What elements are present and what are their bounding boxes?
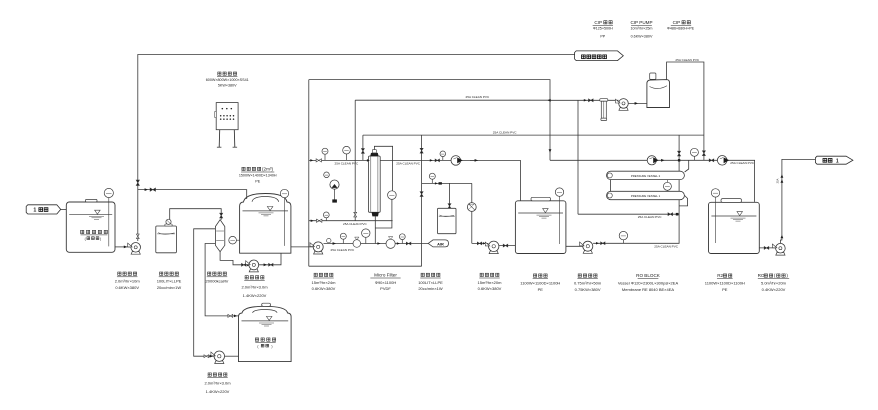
wire: chemical dosing line no.1 to heat exchanger top [170, 209, 222, 222]
label: 약품장치 no.1 spec block [160, 272, 163, 275]
svg-text:PVDF: PVDF [380, 286, 391, 291]
svg-text:5KW×380V: 5KW×380V [218, 84, 237, 88]
svg-text:0.75m³/hr×50m: 0.75m³/hr×50m [574, 281, 602, 286]
wire: skid right line x=421.6 from y=135.1 to base [421, 135, 423, 266]
wire: product line to 공정1 via riser x=781.9 from RO pump [780, 159, 815, 243]
pump 가압펌프 booster pump [583, 251, 592, 254]
wire: top recirculation line y=79.6 from skid riser to x=550 [309, 80, 550, 161]
wire: micro filter drain x=375.3 [374, 216, 376, 243]
svg-text:(2m³): (2m³) [262, 167, 273, 172]
svg-text:100LIT×LLPE: 100LIT×LLPE [157, 279, 182, 284]
svg-text:RO BLOCK: RO BLOCK [636, 273, 661, 278]
svg-text:5.0m³/hr×20m: 5.0m³/hr×20m [761, 281, 787, 286]
svg-text:1500W×1400D×1340H: 1500W×1400D×1340H [239, 174, 277, 178]
label: 부상탱크 spec block [533, 274, 536, 277]
wire: wash pump discharge into flotation tank [499, 245, 515, 247]
pump P5 환수펌프 filtration feed pump [314, 251, 323, 254]
valve: black valve before AIR tee [397, 242, 400, 245]
wire: P5 discharge line y=243.5 to AIR capsule [324, 243, 429, 245]
svg-text:25A CLEAN PVC: 25A CLEAN PVC [493, 131, 517, 135]
wire: main filtration line y=160.4 into flotation tank [309, 160, 521, 200]
svg-text:25A CLEAN PVC: 25A CLEAN PVC [466, 95, 490, 99]
svg-text:RO: RO [758, 273, 765, 278]
chemical doser 약품장치 no.1 container [156, 226, 177, 253]
instrument: TI gauge on T2 left wall [236, 239, 239, 241]
instrument: level gauge on T2 [284, 198, 286, 246]
wire: skid base line y=266.2 [309, 265, 422, 267]
svg-text:1: 1 [33, 208, 36, 214]
svg-text:2.0m³/hr×10m: 2.0m³/hr×10m [115, 279, 141, 284]
arrow: P2 discharge [264, 263, 267, 266]
svg-text:25A CLEAN PVC: 25A CLEAN PVC [638, 215, 662, 219]
wire: CIP pump discharge into CIP tank [629, 102, 647, 104]
valve: valve on HX inlet drop [220, 213, 223, 218]
svg-text:1100W×1100D×1100H: 1100W×1100D×1100H [705, 281, 745, 286]
valve: CIP return valve on x=703.9 [702, 151, 705, 156]
label: 가압펌프 spec block [578, 274, 581, 277]
svg-text:20000kcal/hr: 20000kcal/hr [206, 279, 230, 284]
valve: black valve on permeate line [709, 159, 714, 162]
svg-text:PRESSURE VESSEL 1: PRESSURE VESSEL 1 [631, 194, 661, 198]
wire: CIP return from tank top up and down x=703.9 to product line [667, 62, 704, 160]
pennant: 공정 1 process outlet flag [815, 156, 853, 164]
valve+arrow before IP1 [430, 159, 433, 162]
pennant: 1호기 inlet flag [26, 205, 61, 214]
svg-text:15m³/hr×24m: 15m³/hr×24m [312, 280, 337, 285]
pump IP3 inline pump on permeate line [717, 156, 727, 166]
valve: concentrate valve on x=679.1 [678, 151, 681, 156]
svg-text:1.4KW×220V: 1.4KW×220V [243, 293, 267, 298]
wire: RO pump suction from R2 tank [759, 247, 775, 249]
label: 이송펌프 spec block [118, 272, 121, 275]
pump CIP PUMP [619, 108, 628, 111]
valve: CIP suction valve [584, 99, 587, 102]
pump IP1 inline pump on main line [451, 156, 461, 166]
tank T3 시수탱크(외부) city water tank with dome top [239, 306, 292, 361]
svg-text:PE: PE [722, 287, 728, 292]
micro filter bottom cap [372, 212, 379, 216]
valve: black valve on container no.2 drop [448, 204, 451, 209]
svg-text:1: 1 [836, 158, 839, 164]
svg-text:25A CLEAN PVC: 25A CLEAN PVC [730, 161, 754, 165]
tank R2탱크 RO permeate tank [709, 202, 760, 253]
wire: vessel2 permeate drop x=688.7 [685, 160, 689, 172]
arrow: filter drain junction [377, 242, 380, 245]
valve: skid inlet valves on y=160.4 [310, 159, 313, 162]
wire: vessel1 right link to feed riser [679, 196, 688, 206]
arrow: IP1 discharge flow arrow [470, 159, 478, 161]
valve: skid return valve on y=220.7 [311, 219, 314, 222]
valve+arrow: P4 suction fittings [204, 355, 209, 358]
CIP filter cartridge [600, 99, 608, 102]
wire: vessels left header x=610.4 [609, 175, 611, 195]
svg-text:15m³/hr×20m: 15m³/hr×20m [478, 280, 503, 285]
valve: RO pump suction valve [764, 247, 769, 250]
junction: permeate/concentrate cross [678, 159, 680, 161]
wire: RO reject line y=214.2 to vessels [578, 213, 679, 215]
svg-text:100LIT×LLPE: 100LIT×LLPE [418, 280, 443, 285]
pump RO펌프(급수) product transfer pump [776, 252, 785, 255]
svg-text:1100W×1100D×1100H: 1100W×1100D×1100H [520, 281, 560, 286]
arrow: flow arrow T1 outlet [124, 246, 127, 249]
svg-text:0.6KW×380V: 0.6KW×380V [115, 285, 139, 290]
valve: valve on reject line y=214.2 [668, 213, 673, 216]
sampling pump in skid (circle w/ drain tee) [334, 189, 336, 201]
wire: booster pump suction from flotation tank [566, 245, 583, 247]
svg-text:AIR: AIR [437, 241, 444, 246]
pump P1 이송펌프 transfer pump [131, 252, 140, 255]
chemical doser 약품장치 no.2 container [438, 208, 457, 233]
wire: chemical dosing line no.2 y=183.4 with container drop and dosing pump drop [422, 182, 472, 184]
wire: concentrate drop x=362.9 to main line [362, 135, 364, 160]
wire: tank3 pump discharge into tank3 [225, 355, 239, 357]
svg-text:25A CLEAN PVC: 25A CLEAN PVC [335, 162, 359, 166]
pump 세척펌프 wash pump [489, 251, 498, 254]
svg-text:PRESSURE VESSEL 2: PRESSURE VESSEL 2 [631, 174, 661, 178]
CIP tank jerry can [647, 80, 670, 108]
svg-text:0.6KW×380V: 0.6KW×380V [631, 35, 653, 39]
valve: isolation valve on waste riser [136, 180, 139, 185]
wire: booster pump discharge y=243.3 and RO feed riser x=679.1 [593, 135, 679, 243]
svg-text:): ) [271, 344, 272, 348]
label: 순환펌프 P4 spec block (bottom) [208, 373, 211, 376]
svg-text:PE: PE [255, 179, 260, 183]
pump P2 순환펌프 circulation pump [249, 269, 258, 272]
wire: concentrate header y=135.1 from x=362.9 to x=703.9 [363, 134, 704, 136]
label: 환수펌프 spec block [314, 273, 317, 276]
svg-text:20cc/min×1W: 20cc/min×1W [157, 285, 182, 290]
instrument: PI gauge on filter permeate x=392 [388, 191, 397, 200]
svg-text:0.75KW×380V: 0.75KW×380V [575, 287, 601, 292]
wire: CIP suction line y=100.3 from x=550 [550, 99, 619, 101]
label: 약품장치 no.2 spec block [421, 273, 424, 276]
wire: HX bottom to circulation pump P2 suction [220, 252, 248, 265]
svg-text:0.6KW×380V: 0.6KW×380V [312, 286, 336, 291]
svg-text:2.0m³/hr×3.0m: 2.0m³/hr×3.0m [204, 381, 231, 386]
RO pressure vessel 2 [607, 171, 685, 179]
svg-text:25A: 25A [776, 178, 780, 183]
svg-text:Micro Filter: Micro Filter [374, 273, 397, 278]
svg-text:Membrane RE 8040 BE×4EA: Membrane RE 8040 BE×4EA [622, 287, 674, 292]
valve+arrow: tank3 inlet fittings [228, 314, 233, 317]
dosing pump on container no.1 [165, 224, 172, 226]
instrument: permeate gauge x=694.4 [693, 156, 695, 160]
svg-text:1.4KW×220V: 1.4KW×220V [206, 389, 230, 394]
svg-text:Vessel Φ120×2300L×300psi×2EA: Vessel Φ120×2300L×300psi×2EA [618, 281, 679, 286]
valve: booster discharge fittings [596, 242, 599, 245]
valve+arrow: P2 suction fittings [242, 263, 247, 266]
svg-text:): ) [100, 237, 101, 241]
instrument: level gauge on T1 [108, 198, 110, 247]
svg-text:Φ486×680H×PE: Φ486×680H×PE [667, 26, 695, 30]
instrument: small gauges near AIR line [342, 239, 344, 243]
valve: wash pump discharge valve [503, 244, 508, 247]
fittings on P5 discharge: gauge, arrow [327, 238, 331, 242]
tank T2 처리장치 treatment tank 2m3 with dome top [240, 194, 291, 254]
flotation tank 부상탱크 [515, 201, 566, 254]
valve: vertical valve on x=362.9 concentrate drop [361, 149, 364, 154]
dosing pump no.2 on line x=471.8 [467, 203, 476, 212]
wire: city-water return x=193.7 from HX port down to tank3 pump line y=356.2 [194, 229, 216, 356]
wire: skid return line y=220.7 [309, 220, 393, 222]
svg-text:20cc/min×1W: 20cc/min×1W [418, 286, 443, 291]
wire: city-water supply x=205.1 from HX port to tank3 inlet y=315.9 [205, 244, 238, 316]
arrow: into filter feed [367, 159, 370, 162]
svg-text:600W×800W×1000×SS41: 600W×800W×1000×SS41 [206, 78, 249, 82]
wire: RO permeate line y=160.3 from x=550 to R2 tank drop x=754.6 [550, 160, 755, 202]
svg-text:PE: PE [538, 287, 544, 292]
valve+arrow: wash pump suction fittings [477, 242, 481, 245]
svg-text:PP: PP [600, 35, 605, 39]
svg-text:25A CLEAN PVC: 25A CLEAN PVC [675, 58, 699, 62]
wire: transfer-pump riser to waste header (x=137.8) and top line y=54.5 to 위탁폐수조 [138, 55, 575, 242]
svg-text:25A CLEAN PVC: 25A CLEAN PVC [396, 162, 420, 166]
wire: RO reject vertical x=578 from y=100.2? down to y=214.2 [577, 100, 579, 214]
instrument: gauge + dosing pump on chemical line no.2 [431, 179, 433, 183]
instrument: level gauge on flotation tank [559, 196, 561, 244]
instrument: interstage gauge between vessels [663, 182, 671, 190]
wire: circulation pump P2 discharge to T2 bottom [259, 253, 281, 265]
svg-text:R2: R2 [717, 273, 723, 278]
AIR capsule injection label [428, 240, 448, 247]
arrows: product riser flow arrows x=781.9 [781, 174, 784, 177]
valve: ball valve on drain line [353, 240, 361, 248]
pump P4 순환펌프 city water circulation pump [215, 361, 224, 364]
wire: backwash line y=100.2 from x=355.2 to x=550 [355, 99, 550, 101]
RO pressure vessel 1 [607, 191, 685, 199]
svg-text:CIP: CIP [673, 20, 681, 25]
wire: T1 outlet to transfer pump P1 [115, 246, 131, 248]
micro filter column body [369, 156, 381, 212]
wire: feed line y=189.6 from riser to treatment tank T2 top [138, 190, 247, 199]
micro filter top cap [370, 153, 378, 156]
label: 세척펌프 spec block [480, 273, 483, 276]
pump IP2 RO flush pump inline [647, 156, 656, 165]
wire: micro filter permeate: top stem, header y=146.3, gauge leg, return [374, 146, 392, 191]
valve: vertical valves on x=421.6 and x=355.2 [420, 148, 423, 153]
svg-text:CIP: CIP [594, 20, 602, 25]
valve: ball valve no.2 on drain line [386, 239, 395, 248]
svg-text:Φ125×500H: Φ125×500H [593, 26, 613, 30]
instrument: gauge before inline pump IP1 [442, 157, 444, 161]
wire: inlet pennant link to tank T1 [61, 208, 67, 210]
label: 처리장치(2m3) treatment unit spec block [242, 167, 245, 170]
wire: skid left riser x=308.8 from y=79.6 down to skid base y=266.2 [308, 80, 310, 267]
wire: vertical x=355.2 from CIP/backwash line y=100.2 down to return line [354, 100, 356, 221]
valve: check valve on P1 riser [136, 234, 139, 239]
instrument: gauges above main line in skid [324, 154, 326, 160]
svg-text:25A CLEAN PVC: 25A CLEAN PVC [331, 248, 355, 252]
svg-text:0.6KW×380V: 0.6KW×380V [478, 286, 502, 291]
label: 순환펌프 P2 spec block (shifted down) [245, 276, 248, 279]
wire: wash pump suction y=243.4 [472, 242, 489, 244]
control panel 전기판넬 [216, 103, 238, 130]
svg-text:CIP PUMP: CIP PUMP [630, 20, 652, 25]
arrow: CIP suction tee arrow at x=550 [547, 99, 550, 102]
tank T1 저농도탱크(1호기) low-concentration tank [66, 202, 115, 252]
heat-exchanger 열교환기 vertical lens vessel [215, 220, 224, 252]
instrument: gauge on RO feed [622, 240, 624, 244]
wire: T2 outlet to suction of circulation pump P5 [291, 246, 313, 248]
arrow: CIP pump discharge [635, 102, 638, 105]
svg-text:0.4KW×220V: 0.4KW×220V [762, 287, 786, 292]
svg-text:2.0m³/hr×3.0m: 2.0m³/hr×3.0m [241, 284, 268, 289]
svg-text:25A CLEAN PVC: 25A CLEAN PVC [343, 222, 367, 226]
svg-text:10m³/hr×25m: 10m³/hr×25m [630, 26, 652, 30]
svg-text:Φ90×1100H: Φ90×1100H [375, 280, 397, 285]
svg-text:25A CLEAN PVC: 25A CLEAN PVC [654, 244, 678, 248]
pennant: 위탁폐수조 waste water flag [575, 51, 624, 61]
label: 전기판넬 control panel spec block [218, 72, 221, 75]
valve: black valve on feed line y=189.6 [145, 188, 148, 191]
label: 열교환기 spec block [208, 272, 211, 275]
instrument: level gauge on R2 tank [715, 197, 717, 243]
